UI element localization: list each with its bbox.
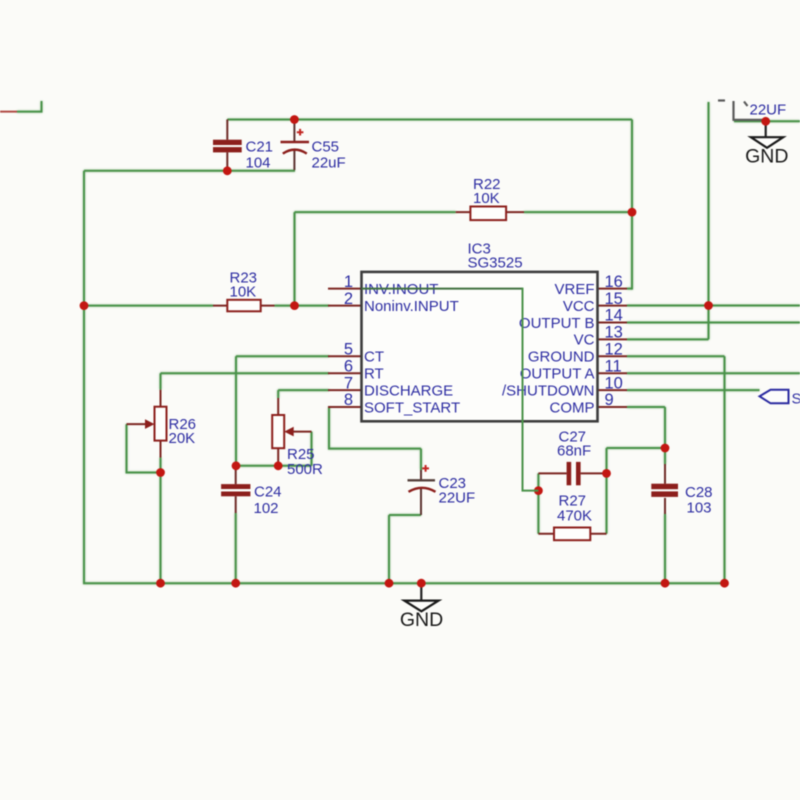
svg-text:470K: 470K [557, 508, 592, 525]
svg-text:GND: GND [745, 146, 788, 168]
pin line 1 [328, 288, 362, 290]
ground symbol bottom [400, 584, 443, 631]
wire CT C24 R25 node [236, 465, 312, 467]
wire top-left fragment red [0, 111, 17, 113]
svg-text:9: 9 [605, 391, 614, 409]
wire VCC vertical to top cap and VC [708, 102, 710, 339]
svg-text:10: 10 [605, 374, 623, 392]
node R25 bottom [274, 461, 283, 470]
resistor R23 [213, 300, 275, 312]
pin labels blue [364, 281, 595, 416]
svg-text:VCC: VCC [563, 298, 595, 315]
wire OUTPUT A [627, 372, 800, 374]
pin line 11 [598, 372, 628, 374]
capacitor C24 [221, 466, 250, 513]
wire top-left fragment green [17, 101, 42, 113]
wire R26 bottom to rail [160, 458, 162, 584]
wire bottom of C21/C55 to left rail [84, 170, 295, 172]
node rail R26 [156, 579, 165, 588]
svg-text:Noninv.INPUT: Noninv.INPUT [364, 298, 459, 315]
wire R25 wiper [311, 432, 313, 466]
svg-text:VREF: VREF [554, 281, 594, 298]
node top right cap/GND [761, 117, 770, 126]
svg-text:DISCHARGE: DISCHARGE [364, 382, 453, 399]
svg-text:16: 16 [605, 273, 623, 291]
svg-text:22uF: 22uF [312, 155, 346, 172]
wire R23 net [84, 305, 329, 307]
maroon pin lines and leads [0, 112, 627, 407]
svg-text:COMP: COMP [550, 399, 595, 416]
node rail GND [417, 579, 426, 588]
svg-text:11: 11 [605, 357, 622, 375]
wire SHUTDOWN to tag [627, 389, 760, 391]
wire R26 wiper [127, 424, 161, 472]
svg-text:/SHUTDOWN: /SHUTDOWN [502, 382, 595, 399]
wire C24 bottom to rail [235, 513, 237, 583]
wire VREF pin stub [627, 288, 632, 290]
wire C28 top stub [664, 448, 666, 464]
capacitor C55 polarized [281, 121, 310, 171]
svg-text:102: 102 [254, 500, 279, 517]
svg-text:GROUND: GROUND [528, 349, 595, 366]
wire bottom rail [83, 582, 725, 584]
node VCC/VC [704, 301, 713, 310]
capacitor C23 polarized [408, 465, 436, 515]
svg-text:VC: VC [574, 332, 595, 349]
wire pin8 to C23 [329, 407, 421, 470]
pin line 7 [328, 389, 362, 391]
node left rail R23 [80, 301, 89, 310]
wire pin1 net through IC to comp network [362, 288, 539, 491]
svg-text:CT: CT [364, 349, 384, 366]
wire VCC net [627, 305, 800, 307]
node rail C24 [231, 579, 240, 588]
svg-text:15: 15 [605, 290, 623, 308]
resistor R22 [456, 207, 524, 221]
pin line 2 [328, 305, 362, 307]
wire pin7 to R25 [278, 390, 329, 398]
wire VC to VCC [627, 338, 709, 340]
pin line 13 [598, 338, 628, 340]
wire left rail [83, 171, 85, 583]
node CT/C24 [232, 461, 241, 470]
svg-text:500R: 500R [287, 461, 323, 478]
node C27 right [602, 469, 611, 478]
svg-text:2: 2 [344, 290, 353, 308]
svg-text:22UF: 22UF [750, 102, 787, 119]
IC U=IC3 SG3525 box [362, 272, 598, 421]
wires green [17, 101, 800, 584]
node rail right [720, 579, 729, 588]
svg-text:22UF: 22UF [439, 490, 476, 507]
pin line 10 [598, 389, 628, 391]
wire C28 bottom to rail [664, 514, 666, 583]
wire C23 bottom to rail [389, 515, 421, 583]
wire R22 right to VREF vertical [524, 211, 632, 213]
wire top net C21/C55 to VREF [227, 120, 632, 290]
pin line 12 [598, 355, 628, 357]
node C21 bottom [223, 166, 232, 175]
svg-text:7: 7 [344, 374, 353, 392]
svg-text:OUTPUT B: OUTPUT B [519, 315, 595, 332]
svg-text:1: 1 [344, 273, 353, 291]
wire COMP net [607, 407, 666, 534]
wire C27 left to R27 left [537, 473, 539, 533]
capacitor C28 [651, 464, 678, 514]
node R23/pin2/R22 [290, 301, 299, 310]
labels blue [169, 102, 787, 525]
svg-text:SH: SH [792, 391, 800, 408]
net tag SHUTDOWN [760, 390, 800, 408]
svg-text:C24: C24 [254, 484, 282, 501]
wire RT net [161, 373, 330, 390]
svg-text:C55: C55 [312, 139, 340, 156]
svg-text:103: 103 [687, 500, 712, 517]
pin line 6 [328, 372, 362, 374]
wire R22 left to R23 node [295, 212, 456, 306]
svg-text:RT: RT [364, 366, 384, 383]
svg-text:104: 104 [246, 155, 271, 172]
svg-text:10K: 10K [473, 190, 500, 207]
pin line 14 [598, 322, 628, 324]
svg-text:SOFT_START: SOFT_START [364, 399, 460, 416]
pin line 16 [598, 288, 628, 290]
node COMP/C28 [661, 444, 670, 453]
svg-text:C28: C28 [685, 484, 713, 501]
wire CT net [236, 356, 329, 466]
ground symbol top right [745, 121, 788, 168]
partial symbol top right gray [718, 101, 766, 120]
node rail C28 [661, 579, 670, 588]
wire OUTPUT B [627, 322, 800, 324]
pin line 15 [598, 305, 628, 307]
node R26 wiper [156, 468, 165, 477]
svg-text:8: 8 [344, 391, 353, 409]
potentiometer R25 [272, 398, 311, 466]
svg-text:10K: 10K [230, 284, 257, 301]
svg-text:12: 12 [605, 341, 623, 359]
node C55 top [290, 115, 299, 124]
capacitor C27 [538, 462, 606, 485]
svg-text:SG3525: SG3525 [468, 255, 523, 272]
node rail C23 [385, 579, 394, 588]
pin numbers blue [344, 273, 623, 409]
svg-text:OUTPUT A: OUTPUT A [520, 366, 595, 383]
capacitor C21 [213, 120, 242, 171]
resistor R27 [538, 528, 606, 541]
svg-text:5: 5 [344, 341, 353, 359]
node R22/VREF [628, 208, 637, 217]
svg-text:C21: C21 [246, 139, 274, 156]
node C27 left [534, 486, 543, 495]
wire GROUND pin to rail [627, 356, 725, 584]
potentiometer R26 [127, 390, 167, 458]
svg-text:20K: 20K [169, 430, 196, 447]
pin line 5 [328, 355, 362, 357]
svg-text:6: 6 [344, 357, 353, 375]
pin line 9 [598, 406, 628, 408]
svg-text:68nF: 68nF [557, 443, 591, 460]
svg-text:14: 14 [605, 307, 623, 325]
svg-text:13: 13 [605, 324, 623, 342]
svg-text:GND: GND [400, 609, 443, 631]
wire top right to GND dot [734, 120, 800, 122]
pin line 8 [328, 406, 362, 408]
